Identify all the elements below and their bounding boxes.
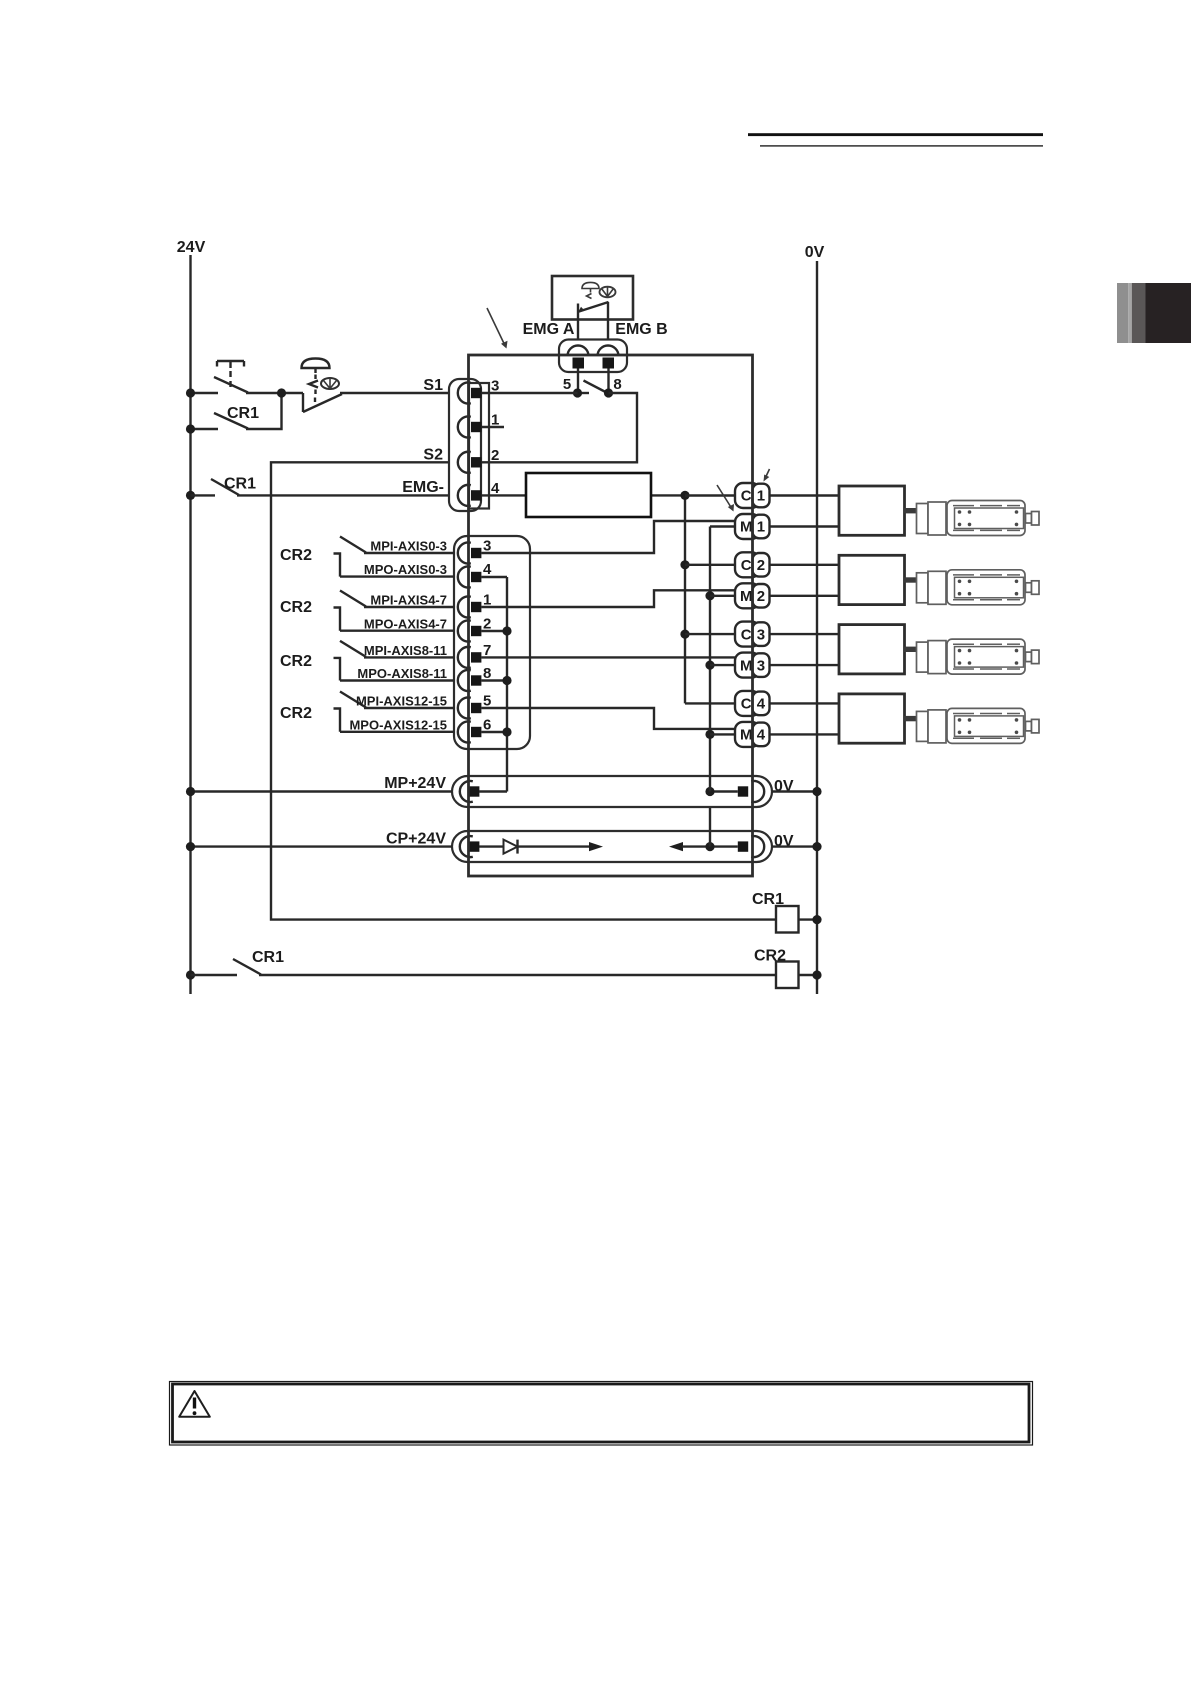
CP+24V stadium [452,831,772,862]
svg-text:MPI-AXIS0-3: MPI-AXIS0-3 [370,539,447,554]
EMG contact tick [577,392,589,394]
pushbutton bracket actuator [217,360,244,362]
node M4 [705,730,714,739]
node C2 [680,560,689,569]
svg-text:CR1: CR1 [227,405,259,422]
svg-text:EMG-: EMG- [402,479,444,496]
svg-text:1: 1 [757,519,765,536]
svg-text:24V: 24V [177,239,206,256]
0V rail [816,261,818,994]
svg-text:CR1: CR1 [252,949,284,966]
EMG lead B lower [607,369,609,394]
warning box [170,1382,1033,1446]
node rail bottom [186,970,195,979]
wire pin6 to bus [481,731,507,733]
svg-text:CR2: CR2 [280,705,312,722]
MP pin squares [469,786,479,796]
e-stop S1 mushroom cap [302,359,330,369]
axis row 3 [685,622,1039,678]
node M3 [705,661,714,670]
svg-text:MPI-AXIS4-7: MPI-AXIS4-7 [370,593,447,608]
branch group2 [334,608,341,631]
wire S2 to relay rail [271,462,776,919]
CP left terminal arc [460,836,473,857]
wire MPO bus inside MP stadium [506,776,508,792]
svg-text:4: 4 [757,727,766,744]
e-stop S1 turn-release circle [321,378,339,389]
EMG pin square B [603,358,615,369]
e-stop stem [590,289,592,293]
wire CR1 contact to EMG- terminal [237,494,450,496]
flow arrow right [589,842,603,851]
wire pin5 to M4 [481,708,736,729]
node pin6 [502,727,511,736]
relay contact CR1 bottom blade [233,959,261,975]
e-stop linkage zigzag [587,294,592,299]
warning triangle [179,1391,210,1417]
wire e-stop to S1 terminal [340,392,450,394]
svg-text:CR2: CR2 [280,547,312,564]
svg-text:CR2: CR2 [280,599,312,616]
node rail EMG row [186,491,195,500]
wire 24V to CR1 emg contact [191,494,216,496]
CP right terminal arc [751,836,764,857]
J1 pin squares [471,388,481,398]
node M2 [705,591,714,600]
relay coil CR2 [776,962,799,989]
wire 24V to MP [191,790,453,792]
MP right terminal arc [751,781,764,802]
svg-text:2: 2 [757,557,765,574]
svg-text:2: 2 [491,447,499,464]
relay contact CR2 group4 blade [340,692,366,708]
wire pin7 to M3 [481,656,736,658]
e-stop mushroom cap [582,282,599,288]
wire MPO-AXIS8-11 [340,679,455,681]
EMG terminal arc A [568,346,589,357]
wire pin1 stub [481,426,504,428]
e-stop S1 stem and dashes [314,368,316,373]
annotation arrow to controller [487,308,505,345]
MPO bus vertical [506,577,508,792]
svg-text:2: 2 [483,615,491,632]
wire CP 0V to rail [772,845,817,847]
wire 24V to pushbutton [191,392,219,394]
EMG terminal arc B [598,346,619,357]
relay contact CR1 emg blade [211,479,239,495]
node pin2 [502,626,511,635]
svg-text:0V: 0V [805,244,825,261]
e-stop turn-release circle [600,287,616,298]
wire M bus to MP 0V square [710,790,738,792]
emergency stop box EMG [552,276,633,320]
svg-text:CR2: CR2 [754,948,786,965]
M bus vertical [709,527,711,847]
svg-text:EMG A: EMG A [523,321,575,338]
page edge tab [1117,283,1128,343]
wire coil CR1 to 0V [799,918,818,920]
node 5 [573,388,582,397]
wire pin1 to M2 [481,590,736,607]
wire MPI-AXIS0-3 [364,552,455,554]
svg-text:4: 4 [757,696,766,713]
wire 24V to CR1 bottom contact [191,974,238,976]
wire MPI-AXIS4-7 [364,606,455,608]
CP pin squares [469,841,479,851]
header rule thick [748,133,1043,136]
svg-text:5: 5 [563,376,571,393]
axis row 1 [685,483,1039,539]
wire CP square to diode [479,845,590,847]
connector J2 body [454,536,530,749]
connector J1 body [449,379,481,511]
wire pushbutton to node A [246,392,303,394]
svg-text:MPO-AXIS8-11: MPO-AXIS8-11 [357,666,447,681]
e-stop contact blade [579,302,609,312]
wire pin3 to M1 [481,521,736,553]
controller box [469,355,753,876]
wire MPO-AXIS4-7 [340,630,455,632]
wire CP right segment [682,845,738,847]
svg-text:4: 4 [483,561,492,578]
svg-text:MPI-AXIS12-15: MPI-AXIS12-15 [356,694,447,709]
node rail CR1 [186,424,195,433]
wire pin4 EMG- to C bus [481,494,685,496]
node 8 [604,388,613,397]
svg-text:3: 3 [757,657,765,674]
diode D1 [504,840,518,854]
relay contact CR2 group1 blade [340,537,366,553]
wire MPO-AXIS0-3 [340,575,455,577]
node C1 [680,491,689,500]
J2 pin squares [471,548,481,558]
wire MP square to MPO bus [479,790,507,792]
svg-text:CP+24V: CP+24V [386,831,446,848]
white label box [526,473,651,517]
24V rail [189,255,191,994]
relay contact CR2 group3 blade [340,641,366,657]
EMG lead A [577,304,579,359]
J2 terminal arcs [458,543,471,564]
wire contact8 to S2 line [481,393,637,462]
wire 24V to CR1 contact [191,428,219,430]
relay coil CR1 [776,906,799,933]
svg-text:CR1: CR1 [224,476,256,493]
svg-text:EMG B: EMG B [615,321,667,338]
J1 terminal arcs [458,383,471,404]
e-stop S1 contact blade [303,394,342,412]
EMG pin square A [573,358,585,369]
svg-text:S2: S2 [423,447,443,464]
flow arrow left [669,842,683,851]
EMG connector body [559,340,627,373]
e-stop S1 lead [302,393,304,412]
svg-text:CR2: CR2 [280,653,312,670]
branch group1 [334,554,341,577]
axis row 2 [685,552,1039,608]
node C3 [680,630,689,639]
wire MPI-AXIS12-15 [364,707,455,709]
wire contact to coil CR2 [259,974,776,976]
EMG lead B [607,302,609,358]
annotation arrow to pin1 box [766,469,770,478]
wire coil CR2 to 0V [799,974,818,976]
annotation arrow to C/M terminals [717,485,732,508]
svg-text:MPI-AXIS8-11: MPI-AXIS8-11 [364,643,447,658]
svg-text:MPO-AXIS4-7: MPO-AXIS4-7 [364,616,447,631]
svg-text:MPO-AXIS0-3: MPO-AXIS0-3 [364,562,447,577]
svg-text:MPO-AXIS12-15: MPO-AXIS12-15 [349,717,447,732]
svg-text:1: 1 [757,488,765,505]
branch group3 [334,658,341,681]
branch group4 [334,709,341,732]
MP+24V stadium [452,776,772,807]
wire pin2 to bus [481,630,507,632]
wire CR1 contact to node A [246,393,282,429]
wire pin3 to node5 [481,392,577,394]
wire MP 0V to rail [772,790,817,792]
header rule thin [760,145,1043,146]
C bus vertical [684,495,686,703]
axis row 4 [685,691,1039,747]
MP left terminal arc [460,781,473,802]
node A [277,388,286,397]
wire M bus inside stadiums [709,776,711,792]
wire pin4 to MPO bus [481,576,507,578]
svg-text:S1: S1 [423,377,443,394]
wire MPI-AXIS8-11 [364,656,455,658]
node rail top [186,388,195,397]
pushbutton contact blade [214,377,248,393]
svg-text:CR1: CR1 [752,891,784,908]
svg-text:8: 8 [613,376,621,393]
EMG contact blade 5-8 [584,381,607,393]
svg-text:3: 3 [757,626,765,643]
svg-text:MP+24V: MP+24V [384,775,446,792]
relay contact CR2 group2 blade [340,591,366,607]
wire MPO-AXIS12-15 [340,731,455,733]
wire pin8 to bus [481,679,507,681]
EMG lead A lower [577,369,579,394]
node pin8 [502,676,511,685]
wire 24V to CP [191,845,453,847]
svg-text:2: 2 [757,588,765,605]
relay contact CR1 latch blade [214,413,248,429]
